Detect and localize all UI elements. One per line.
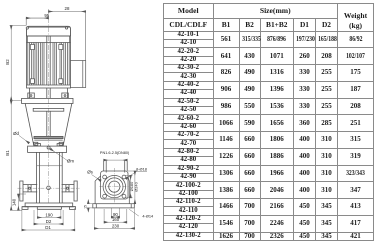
svg-text:28: 28	[65, 6, 70, 11]
svg-text:8-Ø18: 8-Ø18	[136, 167, 147, 172]
svg-text:15: 15	[83, 205, 87, 209]
svg-text:Øs: Øs	[87, 170, 93, 175]
svg-text:B2: B2	[5, 59, 10, 65]
svg-text:190: 190	[45, 212, 53, 217]
svg-text:4-Ø14: 4-Ø14	[142, 213, 154, 218]
svg-text:PN1.6-2.5(DN80): PN1.6-2.5(DN80)	[100, 151, 130, 155]
svg-text:Ød: Ød	[13, 131, 19, 136]
svg-text:D1: D1	[45, 225, 51, 230]
svg-text:D2: D2	[46, 219, 52, 224]
svg-text:230: 230	[112, 223, 120, 228]
svg-text:Ø240: Ø240	[133, 181, 138, 191]
svg-text:160: 160	[112, 217, 120, 222]
svg-text:B1: B1	[5, 150, 10, 156]
svg-text:Øm: Øm	[67, 159, 74, 164]
svg-text:95: 95	[44, 13, 49, 18]
svg-text:140: 140	[12, 198, 17, 206]
